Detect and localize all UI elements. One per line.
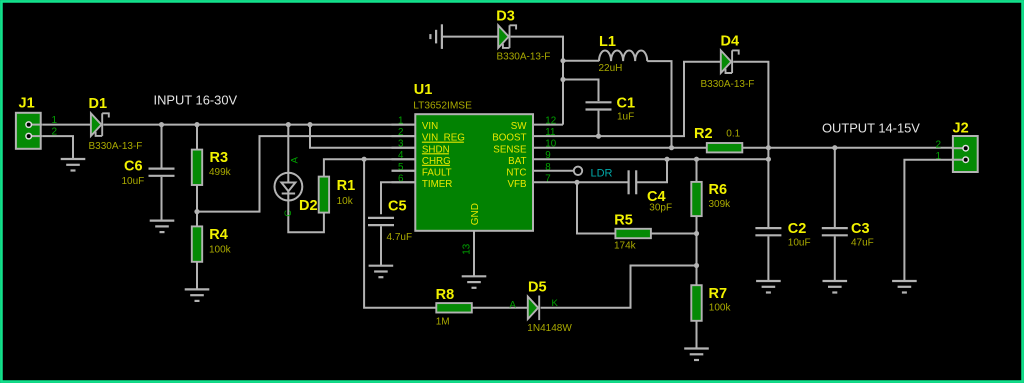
capacitor C6 10uF xyxy=(149,169,175,176)
wire divider tap to U1 VIN_REG xyxy=(197,136,415,212)
wire C2 bottom to ground xyxy=(767,236,769,281)
svg-text:30pF: 30pF xyxy=(649,202,672,213)
inductor L1 22uH xyxy=(599,50,647,61)
wire output row to C3 top xyxy=(834,148,836,227)
wire U1 BOOST to D4 anode xyxy=(533,62,721,136)
svg-text:NTC: NTC xyxy=(506,167,526,178)
junction SW/L1 xyxy=(560,58,565,63)
svg-text:D2: D2 xyxy=(299,198,318,214)
svg-text:L1: L1 xyxy=(599,34,616,50)
junction BAT/C2 vertical xyxy=(766,157,771,162)
wire SW branch to C1 top xyxy=(563,80,599,102)
svg-text:BOOST: BOOST xyxy=(492,133,526,144)
wire R8 right to D5 anode xyxy=(472,307,528,309)
LED D2 xyxy=(275,173,303,201)
svg-text:BAT: BAT xyxy=(508,156,526,167)
wire J2 pin1 to ground xyxy=(904,160,953,281)
resistor R4 100k xyxy=(192,226,202,261)
ground under C2 xyxy=(756,281,781,293)
junction BAT/C4 xyxy=(664,157,669,162)
wire BAT to R6 top xyxy=(696,159,698,182)
wire bus to U1 SHDN xyxy=(310,125,415,148)
U1 left pin names xyxy=(422,121,465,190)
U1 left pin numbers xyxy=(398,116,404,185)
svg-text:C5: C5 xyxy=(388,199,407,215)
svg-text:B330A-13-F: B330A-13-F xyxy=(497,52,551,63)
svg-text:C1: C1 xyxy=(617,96,636,112)
ground under R7 xyxy=(684,349,709,361)
LDR open pin circle xyxy=(574,167,582,175)
svg-text:D5: D5 xyxy=(528,280,547,296)
wire U1 TIMER to C5 top xyxy=(381,182,415,214)
wire CHRG down to R8 left xyxy=(364,159,436,308)
svg-text:B330A-13-F: B330A-13-F xyxy=(701,79,755,90)
ground under C6 xyxy=(150,221,175,233)
svg-text:C3: C3 xyxy=(851,221,870,237)
wire C4 right up to BAT row xyxy=(636,159,667,182)
svg-text:SW: SW xyxy=(511,121,528,132)
wire C5 bottom to ground xyxy=(380,226,382,265)
junction bus/SHDN xyxy=(307,122,312,127)
svg-text:R5: R5 xyxy=(614,212,633,228)
resistor R5 174k xyxy=(615,229,651,238)
svg-text:C: C xyxy=(283,210,294,217)
wire R2 right to J2 pin 2 xyxy=(742,147,953,149)
resistor R2 0.1 xyxy=(707,143,743,152)
svg-text:LDR: LDR xyxy=(591,167,613,179)
junction SENSE/L1 xyxy=(669,145,674,150)
svg-text:174k: 174k xyxy=(614,241,637,252)
svg-text:R1: R1 xyxy=(337,178,356,194)
junction output row/C3 xyxy=(832,145,837,150)
wire SW to L1 left xyxy=(563,60,599,62)
svg-text:499k: 499k xyxy=(209,167,232,178)
junction bus/D2 xyxy=(286,122,291,127)
wire bus to R3 top xyxy=(196,125,198,150)
svg-text:C6: C6 xyxy=(124,159,143,175)
connector J1 xyxy=(16,113,42,149)
wire bus through D2 to R1 bottom xyxy=(288,125,324,233)
junction SW/C1 branch xyxy=(560,77,565,82)
svg-text:47uF: 47uF xyxy=(851,237,874,248)
junction CHRG/R8 xyxy=(362,157,367,162)
svg-text:TIMER: TIMER xyxy=(422,179,452,190)
wire VFB down to R5 left xyxy=(577,182,615,233)
svg-text:100k: 100k xyxy=(709,303,732,314)
svg-text:10uF: 10uF xyxy=(122,176,145,187)
svg-text:1M: 1M xyxy=(436,316,450,327)
wire R4 bottom to ground xyxy=(196,262,198,290)
diode D5 1N4148W xyxy=(528,296,539,321)
svg-text:VIN: VIN xyxy=(422,121,438,132)
resistor R3 499k xyxy=(192,150,202,185)
wire D4 cathode down to C2 xyxy=(733,62,768,227)
ground under J1 xyxy=(61,159,86,171)
svg-text:10uF: 10uF xyxy=(788,237,811,248)
svg-text:R2: R2 xyxy=(694,126,713,142)
resistor R8 1M xyxy=(436,303,472,312)
wire U1 VFB to C4 left xyxy=(533,181,629,183)
svg-text:4.7uF: 4.7uF xyxy=(387,232,413,243)
capacitor C3 47uF xyxy=(822,228,848,235)
wire U1 SW stub xyxy=(533,124,563,126)
wire R3 bottom to R4 top xyxy=(196,185,198,226)
wire J1 pin1 to D1 anode xyxy=(42,124,91,126)
svg-text:22uH: 22uH xyxy=(599,63,623,74)
wire ground to D3 anode xyxy=(442,36,498,38)
wire stub U1 FAULT xyxy=(392,170,415,172)
wire input bus D1 cathode to U1 VIN xyxy=(103,124,414,126)
svg-text:R4: R4 xyxy=(209,227,228,243)
connector J2 xyxy=(952,136,978,172)
resistor R6 309k xyxy=(691,182,701,216)
diode D1 B330A-13-F xyxy=(91,113,109,136)
svg-text:OUTPUT 14-15V: OUTPUT 14-15V xyxy=(822,121,920,136)
diode D4 B330A-13-F xyxy=(721,50,739,73)
junction BOOST/C1 xyxy=(596,134,601,139)
wire U1 NTC to LDR pin xyxy=(533,170,574,172)
ground under J2 pin 1 xyxy=(892,281,917,293)
svg-text:1N4148W: 1N4148W xyxy=(527,323,572,334)
capacitor C5 4.7uF xyxy=(368,218,394,225)
ground under U1 pin 13 xyxy=(462,276,487,288)
wire J1 pin2 to ground xyxy=(42,136,73,159)
svg-text:D1: D1 xyxy=(89,96,108,112)
junction R3/R4 divider tap xyxy=(194,209,199,214)
svg-text:100k: 100k xyxy=(209,245,232,256)
ground under C3 xyxy=(823,281,848,293)
svg-text:10k: 10k xyxy=(337,196,354,207)
wire D3 cathode down to U1 SW xyxy=(511,37,563,125)
svg-text:C2: C2 xyxy=(788,221,807,237)
wire U1 BAT row xyxy=(533,158,768,160)
op-amp U1 LT3652IMSE body xyxy=(415,114,533,231)
wire R6 bottom to R7 top xyxy=(696,216,698,285)
junction R5/divider xyxy=(694,231,699,236)
ground under R4 xyxy=(185,289,210,301)
junction bus/R3 xyxy=(194,122,199,127)
ground under C5 xyxy=(369,266,394,278)
svg-text:J1: J1 xyxy=(19,96,35,112)
junction VFB/R5 xyxy=(574,180,579,185)
wire L1 right down to SENSE row xyxy=(647,61,671,148)
wire U1 SENSE to R2 left xyxy=(533,147,707,149)
svg-text:B330A-13-F: B330A-13-F xyxy=(89,141,143,152)
svg-text:1uF: 1uF xyxy=(617,111,634,122)
capacitor C2 10uF xyxy=(755,228,781,235)
wire bus to C6 top xyxy=(161,125,163,168)
wire R5 right to divider node xyxy=(651,233,697,235)
resistor R1 10k xyxy=(319,177,329,213)
svg-text:D3: D3 xyxy=(496,8,515,24)
svg-text:LT3652IMSE: LT3652IMSE xyxy=(413,100,472,111)
wire C6 bottom to ground xyxy=(161,177,163,220)
svg-text:A: A xyxy=(289,156,300,163)
svg-text:309k: 309k xyxy=(709,199,732,210)
resistor R7 100k xyxy=(691,285,701,321)
junction BAT/R6 xyxy=(694,157,699,162)
svg-text:A: A xyxy=(510,299,517,310)
capacitor C1 1uF xyxy=(586,102,612,109)
capacitor C4 30pF xyxy=(629,170,637,194)
wire U1 GND pin 13 to ground xyxy=(473,231,475,277)
wire R1 top to U1 CHRG xyxy=(324,159,415,176)
svg-text:INPUT 16-30V: INPUT 16-30V xyxy=(154,93,238,108)
svg-text:VFB: VFB xyxy=(507,179,527,190)
wire C1 bottom to BOOST row xyxy=(598,111,600,137)
svg-text:R3: R3 xyxy=(210,150,229,166)
svg-text:J2: J2 xyxy=(953,121,969,137)
svg-text:GND: GND xyxy=(470,203,481,225)
svg-text:SENSE: SENSE xyxy=(493,144,527,155)
svg-text:13: 13 xyxy=(462,243,473,254)
U1 left pin stubs xyxy=(392,125,415,183)
junction bus/C6 xyxy=(159,122,164,127)
junction output row/D4-C2 xyxy=(766,145,771,150)
svg-text:D4: D4 xyxy=(721,34,740,50)
wire C3 bottom to ground xyxy=(834,236,836,281)
svg-text:R6: R6 xyxy=(709,182,728,198)
U1 right pin names xyxy=(492,121,527,190)
svg-text:R8: R8 xyxy=(436,287,455,303)
wire D5 cathode to divider node xyxy=(541,266,697,308)
svg-text:0.1: 0.1 xyxy=(726,129,740,140)
svg-text:2: 2 xyxy=(935,139,941,150)
U1 right pin numbers xyxy=(545,116,556,185)
svg-text:U1: U1 xyxy=(414,82,433,98)
junction D5 feedback/divider xyxy=(694,263,699,268)
ground left of D3 xyxy=(430,24,442,49)
diode D3 B330A-13-F xyxy=(498,25,516,48)
wire R7 bottom to ground xyxy=(696,321,698,349)
svg-text:R7: R7 xyxy=(709,286,728,302)
svg-text:FAULT: FAULT xyxy=(422,167,452,178)
